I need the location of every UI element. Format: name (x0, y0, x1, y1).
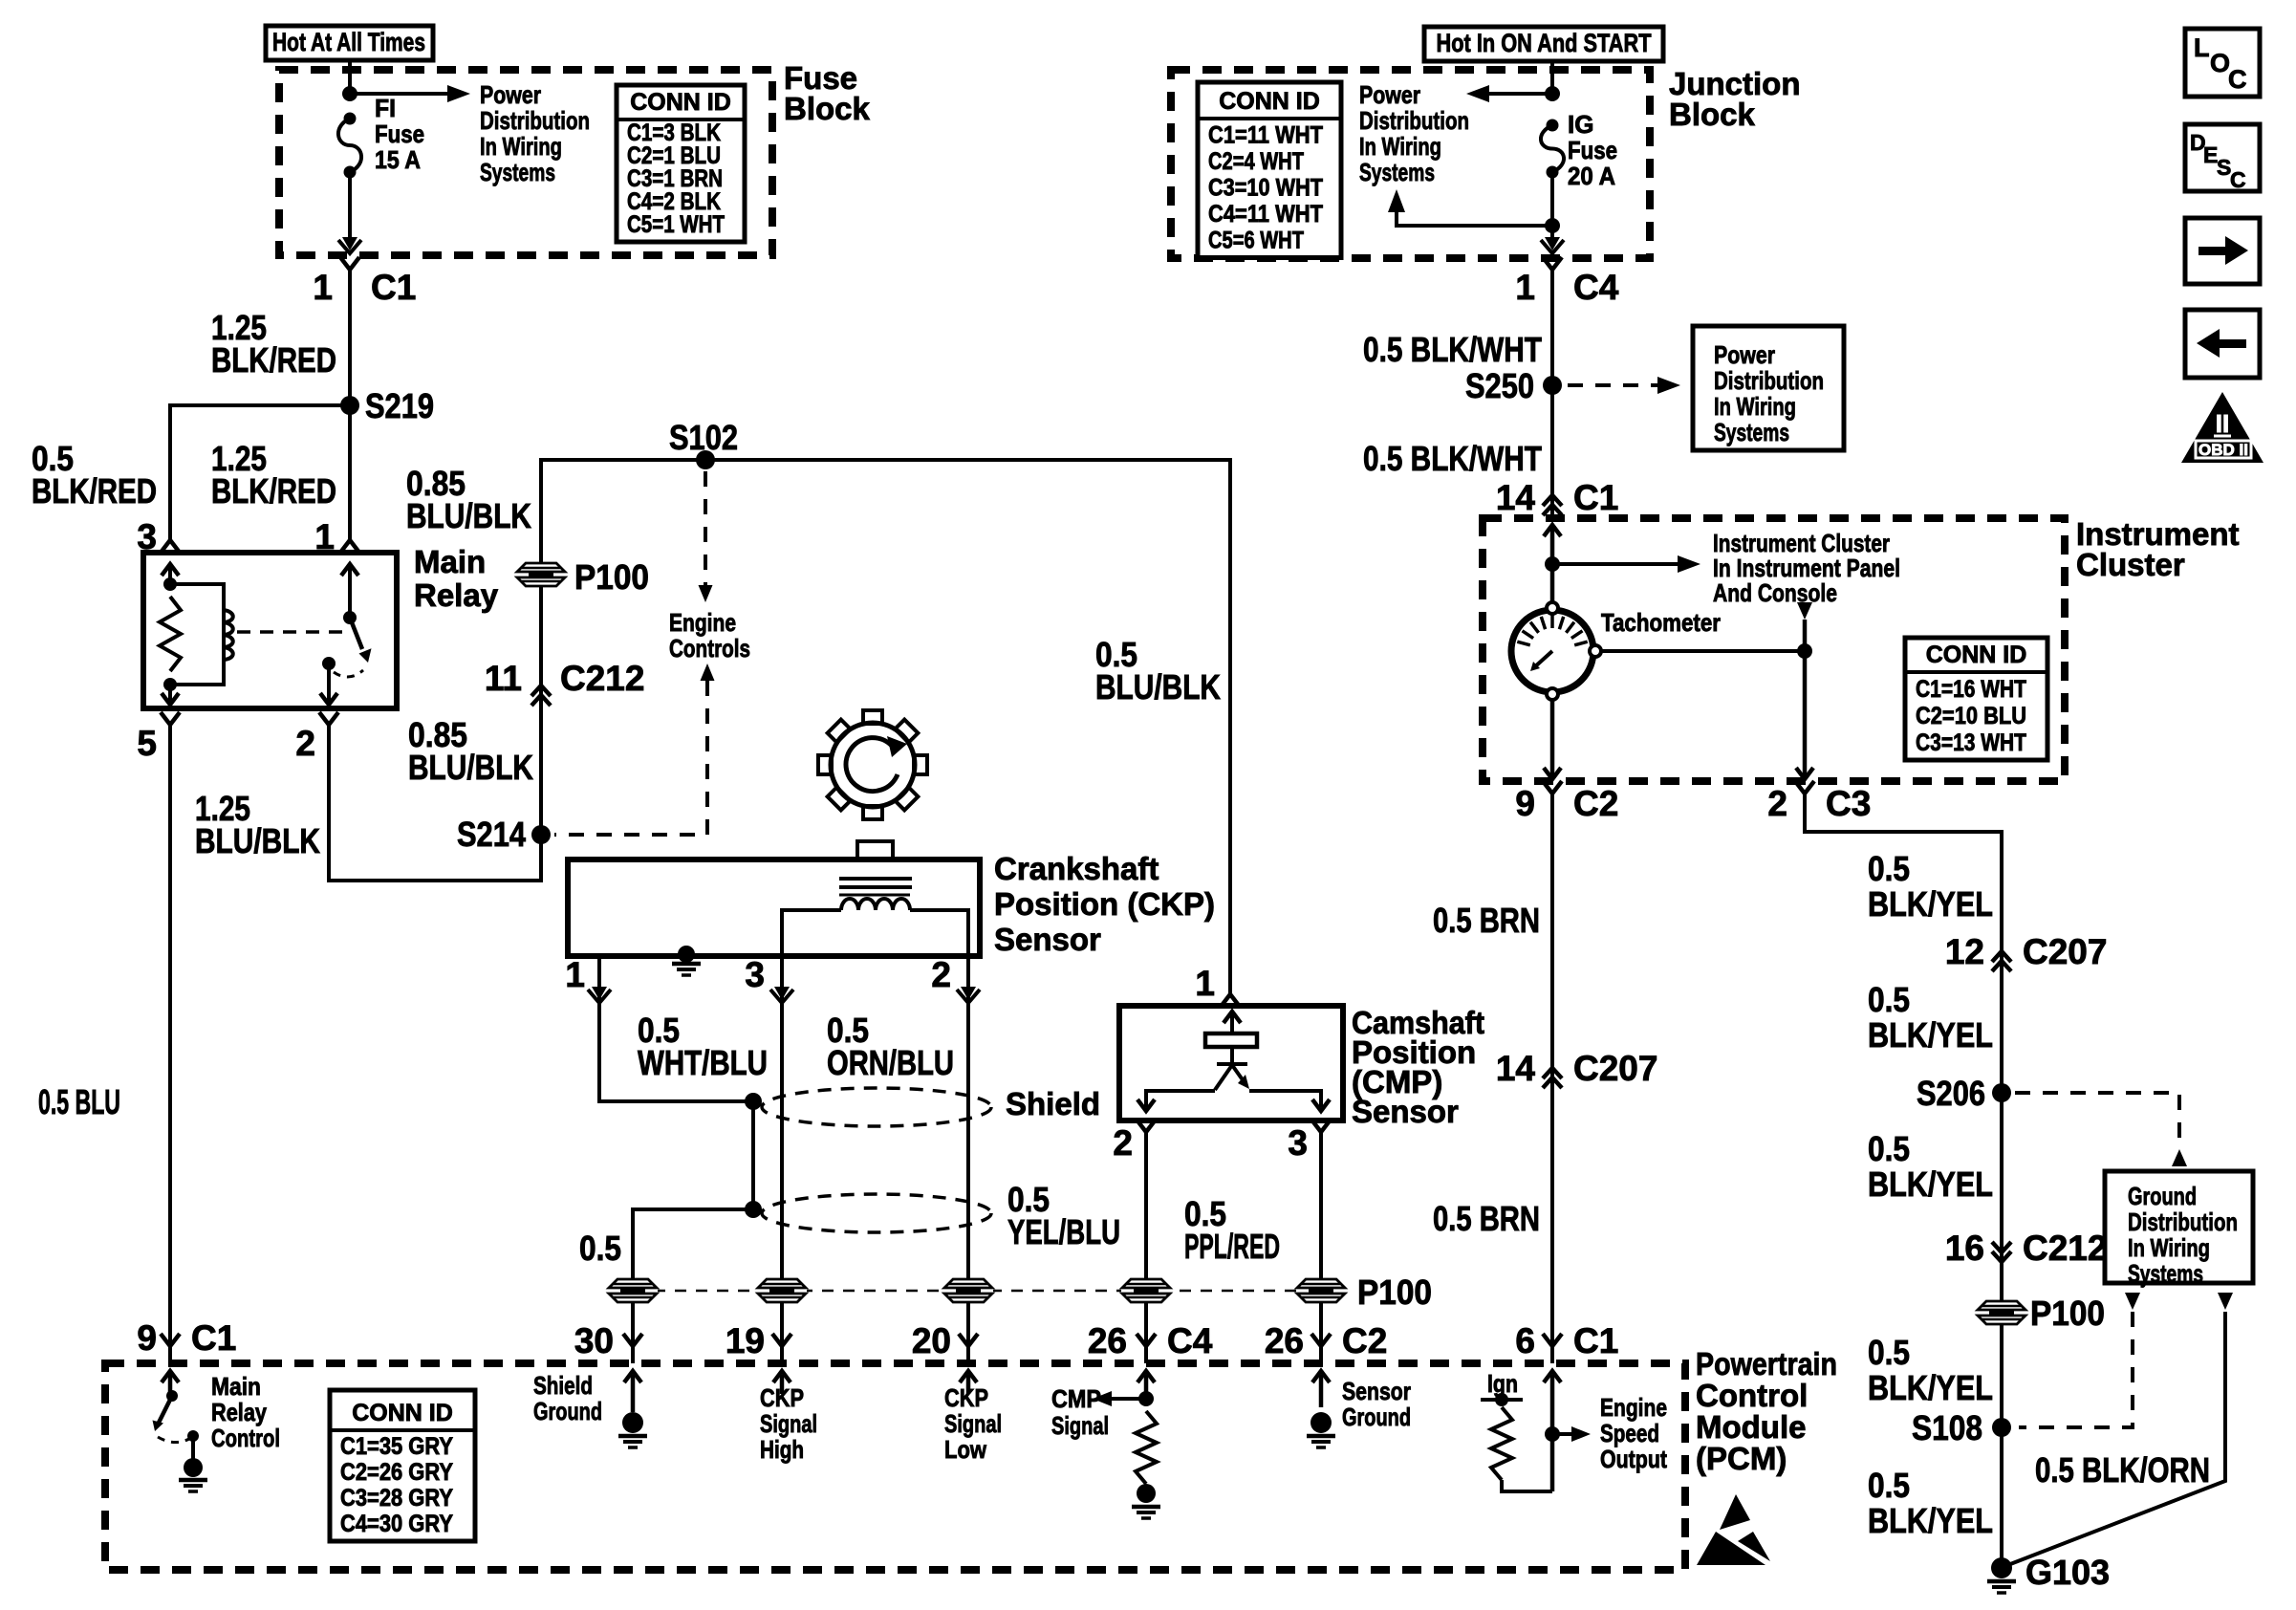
header box: Hot In ON And START (1424, 27, 1663, 61)
svg-text:BLK/RED: BLK/RED (211, 340, 336, 380)
svg-text:BLU/BLK: BLU/BLK (408, 748, 533, 787)
dashed reference: S206 to ground distribution (2015, 1093, 2179, 1147)
fuse block CONN ID table (617, 85, 745, 242)
svg-text:Relay: Relay (414, 577, 499, 613)
wire: 2 C3 over and down to G103 (1805, 808, 2002, 1568)
svg-text:Shield: Shield (1006, 1086, 1100, 1121)
connector 2 C3 below cluster (1795, 781, 1814, 794)
dashed reference: S250 to power distribution box (1568, 383, 1663, 387)
wire: ground distribution to G103 (0.5 BLK/ORN) (2218, 1293, 2233, 1310)
PCM internal: main relay control driver (168, 1373, 173, 1394)
svg-text:BLK/YEL: BLK/YEL (1868, 1368, 1993, 1407)
svg-text:14: 14 (1496, 478, 1536, 517)
wire: console arrow to 2 C3 (1803, 620, 1808, 777)
svg-text:In Wiring: In Wiring (2128, 1233, 2210, 1262)
svg-text:Block: Block (1669, 97, 1756, 132)
svg-text:C: C (2228, 65, 2247, 94)
svg-text:Ground: Ground (2128, 1182, 2197, 1210)
svg-text:3: 3 (1288, 1123, 1308, 1163)
svg-text:C4=30 GRY: C4=30 GRY (340, 1511, 453, 1537)
P100 grommet dashed bulkhead line (633, 1290, 1321, 1293)
exit arrow at junction block boundary (1545, 237, 1560, 250)
shield drain wire (751, 1101, 755, 1209)
svg-text:C3=28 GRY: C3=28 GRY (340, 1485, 453, 1512)
svg-text:CONN ID: CONN ID (1219, 88, 1320, 115)
wire: 9 C2 to PCM 6 C1 (0.5 BRN) (1550, 808, 1554, 1346)
grommet P100 at shield wire (608, 1278, 658, 1303)
svg-text:C: C (2230, 167, 2246, 192)
wire: CKP pin 2 to PCM 20 (0.5 ORN/BLU) (966, 957, 970, 1346)
node: splice to power distribution (junction block) (1545, 86, 1560, 101)
svg-text:WHT/BLU: WHT/BLU (638, 1043, 768, 1082)
svg-text:C1: C1 (1573, 1321, 1618, 1360)
svg-text:Power: Power (1714, 340, 1775, 369)
connector 14 C207 (1543, 1068, 1562, 1078)
svg-text:0.5 BLK/WHT: 0.5 BLK/WHT (1363, 439, 1542, 478)
svg-text:C1: C1 (371, 268, 416, 307)
svg-text:L: L (2194, 33, 2210, 62)
svg-text:C4: C4 (1573, 268, 1619, 307)
svg-text:Crankshaft: Crankshaft (994, 851, 1159, 886)
splice S206 (1992, 1083, 2011, 1102)
svg-text:In Wiring: In Wiring (1714, 392, 1796, 421)
svg-text:Distribution: Distribution (2128, 1207, 2238, 1236)
wire: C1 to S219 (348, 270, 352, 405)
svg-text:S206: S206 (1917, 1074, 1985, 1113)
tach signal node (1797, 643, 1812, 659)
svg-text:2: 2 (1767, 784, 1787, 823)
svg-text:C4=11 WHT: C4=11 WHT (1208, 201, 1323, 228)
svg-text:0.5: 0.5 (1868, 849, 1910, 888)
connector 9 C2 below cluster (1543, 781, 1562, 794)
svg-text:0.5 BRN: 0.5 BRN (1433, 1199, 1540, 1238)
ground G103 (1991, 1557, 2012, 1578)
wire: tachometer right terminal to node (1601, 649, 1805, 653)
relay switch contact (322, 657, 336, 670)
svg-text:30: 30 (574, 1321, 614, 1360)
svg-text:1: 1 (565, 955, 585, 994)
wire: CMP pin 3 to PCM 26 C2 (1319, 1132, 1323, 1346)
wire: relay pin 2 up to S102 and over to CMP pin 1 (329, 460, 1230, 994)
connector 14 C1 (1543, 495, 1562, 506)
svg-text:BLK/YEL: BLK/YEL (1868, 1015, 1993, 1055)
shield dashed ellipse lower (762, 1194, 991, 1232)
svg-text:CONN ID: CONN ID (352, 1400, 453, 1426)
svg-text:C3=13 WHT: C3=13 WHT (1916, 729, 2026, 756)
CKP sensor stem (857, 841, 893, 859)
svg-text:14: 14 (1496, 1049, 1536, 1088)
svg-text:C1: C1 (191, 1318, 236, 1358)
svg-text:26: 26 (1088, 1321, 1127, 1360)
relay internal node lower (163, 678, 177, 691)
svg-text:0.5 BLU: 0.5 BLU (38, 1082, 120, 1121)
svg-text:Low: Low (944, 1435, 987, 1464)
branch with up arrow (junction block) (1397, 203, 1552, 226)
svg-text:S219: S219 (365, 386, 434, 425)
connector 1 C1 below fuse block (340, 257, 359, 270)
svg-text:2: 2 (931, 955, 951, 994)
splice S108 (1992, 1418, 2011, 1437)
svg-text:And Console: And Console (1713, 578, 1837, 607)
svg-text:BLU/BLK: BLU/BLK (406, 496, 531, 535)
PCM internal: CKP signal low input arrow (966, 1375, 971, 1394)
exit arrow at fuse block boundary (342, 237, 357, 250)
svg-text:0.5: 0.5 (579, 1229, 621, 1268)
svg-text:Sensor: Sensor (994, 922, 1101, 957)
svg-text:Main: Main (414, 544, 486, 579)
svg-text:BLK/YEL: BLK/YEL (1868, 1164, 1993, 1204)
svg-text:Ground: Ground (1342, 1403, 1411, 1431)
svg-text:P100: P100 (1357, 1273, 1432, 1312)
svg-text:Systems: Systems (2128, 1259, 2203, 1288)
svg-text:FI: FI (375, 94, 396, 122)
svg-text:CONN ID: CONN ID (1926, 642, 2027, 668)
svg-text:Power: Power (1359, 80, 1420, 109)
svg-text:1: 1 (1515, 268, 1535, 307)
relay switch pivot (343, 611, 357, 624)
relay resistor (160, 597, 181, 671)
svg-text:CONN ID: CONN ID (630, 89, 731, 116)
relay pin2 internal lead with down arrow (327, 664, 331, 703)
svg-text:9: 9 (137, 1318, 157, 1358)
svg-text:Hot At All Times: Hot At All Times (272, 28, 425, 56)
svg-text:Signal: Signal (1051, 1411, 1109, 1440)
svg-text:C5=6 WHT: C5=6 WHT (1208, 228, 1304, 254)
fuse IG 20A symbol (1547, 120, 1559, 132)
wire: CKP pin 1 to shield (599, 957, 753, 1101)
splice S219 (340, 396, 359, 415)
svg-text:15 A: 15 A (375, 145, 421, 174)
svg-text:O: O (2210, 49, 2230, 77)
dashed reference: S108 to ground distribution (2125, 1293, 2140, 1310)
svg-text:In Wiring: In Wiring (480, 132, 562, 161)
icon box: DESC (2185, 124, 2260, 191)
svg-text:C3: C3 (1826, 784, 1871, 823)
relay switch arm (350, 618, 362, 649)
wire from Hot In ON And START into junction block (1550, 61, 1554, 91)
relay coil branch wire (170, 584, 224, 685)
svg-text:CMP: CMP (1051, 1384, 1101, 1413)
svg-text:BLU/BLK: BLU/BLK (195, 821, 320, 860)
svg-text:Engine: Engine (1600, 1393, 1667, 1422)
svg-text:C4: C4 (1167, 1321, 1213, 1360)
svg-text:20: 20 (912, 1321, 951, 1360)
relay switch dashed travel arc (334, 670, 363, 677)
svg-text:2: 2 (1113, 1123, 1133, 1163)
wire: CMP pin 2 to PCM 26 C4 (0.5 YEL... PPL/RED) (1144, 1132, 1148, 1346)
relay pin 1 connector (340, 540, 359, 553)
svg-text:2: 2 (295, 724, 315, 763)
CKP case ground (678, 946, 695, 963)
CKP sensor box (568, 859, 980, 956)
svg-text:S102: S102 (669, 418, 738, 457)
node: branch to power distribution return (1545, 218, 1560, 233)
svg-text:High: High (760, 1435, 804, 1464)
icon box: arrow right (2185, 218, 2260, 284)
svg-text:C1=11 WHT: C1=11 WHT (1208, 122, 1323, 149)
CMP pin 3 connector (1311, 1120, 1331, 1132)
svg-text:Main: Main (211, 1372, 261, 1401)
svg-text:S250: S250 (1465, 366, 1534, 405)
svg-text:Cluster: Cluster (2076, 547, 2185, 582)
wire: S219 to relay pin 1 (348, 405, 352, 540)
PCM internal: CMP pull resistor to ground (1136, 1411, 1157, 1484)
relay coil winding (224, 610, 233, 660)
grommet P100 at sensor ground (1296, 1278, 1346, 1303)
CKP pickup coil (841, 899, 910, 910)
relay pin 2 connector (319, 712, 338, 725)
splice S102 (696, 450, 715, 469)
cluster CONN ID table (1905, 638, 2047, 760)
svg-text:Distribution: Distribution (1359, 106, 1469, 135)
svg-text:CKP: CKP (760, 1383, 804, 1412)
svg-text:20 A: 20 A (1568, 162, 1615, 190)
svg-text:CKP: CKP (944, 1383, 988, 1412)
svg-text:0.5 BRN: 0.5 BRN (1433, 901, 1540, 940)
connector 1 C4 below junction block (1543, 257, 1562, 270)
svg-text:Hot In ON And START: Hot In ON And START (1437, 29, 1652, 57)
CMP sensor box (1119, 1006, 1343, 1120)
CMP internal: pin1 lead with up arrow (1224, 1012, 1241, 1023)
svg-text:C1: C1 (1573, 478, 1618, 517)
wire: 1 C4 down to instrument cluster (1550, 270, 1554, 521)
svg-text:Systems: Systems (480, 158, 555, 186)
dashed reference: S102 to Engine Controls (704, 471, 707, 585)
svg-text:BLU/BLK: BLU/BLK (1095, 667, 1221, 707)
wire from Hot At All Times into fuse block (348, 60, 352, 91)
svg-text:C3=10 WHT: C3=10 WHT (1208, 175, 1323, 202)
relay pin1 internal lead with up arrow (348, 564, 352, 618)
PCM internal: engine speed output node (1550, 1375, 1555, 1491)
PCM internal: shield ground termination (631, 1375, 636, 1412)
svg-text:Systems: Systems (1714, 418, 1789, 446)
svg-text:(PCM): (PCM) (1696, 1441, 1787, 1476)
PCM internal: CKP signal high input arrow (780, 1375, 785, 1394)
CKP reluctor gear symbol (818, 710, 927, 819)
grommet P100 at CMP signal (1121, 1278, 1171, 1303)
fuse block dashed outline (279, 70, 772, 255)
pass-through grommet P100 (engine harness) (516, 562, 566, 587)
CKP internal leads (782, 910, 841, 955)
svg-text:C1=35 GRY: C1=35 GRY (340, 1433, 453, 1460)
svg-text:0.5: 0.5 (1868, 1129, 1910, 1168)
svg-text:Control: Control (1696, 1378, 1808, 1413)
svg-text:II: II (2216, 409, 2229, 438)
svg-text:Engine: Engine (669, 608, 736, 637)
svg-text:C207: C207 (2023, 932, 2107, 971)
svg-text:IG: IG (1568, 110, 1593, 139)
svg-text:C2: C2 (1573, 784, 1618, 823)
svg-text:P100: P100 (2030, 1294, 2105, 1333)
CMP internal stem and crossbar (1230, 1047, 1234, 1064)
svg-text:BLK/RED: BLK/RED (32, 471, 157, 511)
header box: Hot At All Times (266, 26, 433, 60)
svg-text:C212: C212 (560, 659, 644, 698)
svg-text:Speed: Speed (1600, 1419, 1659, 1447)
svg-text:19: 19 (726, 1321, 765, 1360)
splice S214 (531, 825, 551, 844)
CKP core laminations (839, 877, 912, 881)
relay pin3 internal lead with up arrow (168, 564, 172, 584)
arrow to Instrument Cluster In Instrument Panel And Console (1552, 562, 1683, 566)
svg-text:26: 26 (1265, 1321, 1304, 1360)
ESD sensitive device symbol (1720, 1494, 1750, 1530)
svg-text:Fuse: Fuse (1568, 136, 1617, 164)
grommet P100 right (1977, 1300, 2026, 1325)
arrow from And Console down to tach signal wire (1797, 602, 1812, 620)
dashed reference: Engine Controls to S214 (701, 664, 715, 681)
relay pin5 internal lead with down arrow (168, 685, 172, 703)
reference box: Ground Distribution In Wiring Systems (2105, 1171, 2253, 1283)
icon: OBD II triangle (2181, 392, 2264, 463)
relay coil-contact dashed link (237, 630, 342, 634)
svg-text:Shield: Shield (533, 1371, 593, 1400)
svg-text:5: 5 (137, 724, 157, 763)
svg-text:1: 1 (313, 268, 333, 307)
wire: tachometer output to 9 C2 (1550, 700, 1555, 777)
node: splice to power distribution (fuse block) (342, 86, 357, 101)
svg-text:C2=10 BLU: C2=10 BLU (1916, 703, 2026, 729)
svg-text:0.5: 0.5 (1868, 980, 1910, 1019)
main relay box (143, 553, 397, 708)
svg-text:0.5 BLK/WHT: 0.5 BLK/WHT (1363, 330, 1542, 369)
svg-text:Relay: Relay (211, 1398, 267, 1426)
svg-text:Distribution: Distribution (1714, 366, 1824, 395)
svg-text:OBD II: OBD II (2199, 441, 2248, 459)
svg-text:Ground: Ground (533, 1397, 602, 1425)
svg-text:Powertrain: Powertrain (1696, 1346, 1837, 1382)
svg-text:16: 16 (1945, 1229, 1984, 1268)
svg-text:BLK/YEL: BLK/YEL (1868, 884, 1993, 924)
grommet P100 at CKP signal high (757, 1278, 807, 1303)
PCM internal: CMP signal input (1144, 1375, 1149, 1399)
svg-text:C212: C212 (2023, 1229, 2107, 1268)
connector 11 C212 (531, 685, 551, 696)
wire: shield to PCM 30 (633, 1209, 753, 1346)
shield node lower (745, 1201, 762, 1218)
svg-text:C207: C207 (1573, 1049, 1657, 1088)
relay pin 5 connector (161, 712, 180, 725)
CMP internal vane arms (1215, 1065, 1232, 1090)
svg-text:Distribution: Distribution (480, 106, 590, 135)
svg-text:Signal: Signal (944, 1409, 1002, 1438)
svg-text:0.5 BLK/ORN: 0.5 BLK/ORN (2035, 1450, 2210, 1490)
svg-text:9: 9 (1515, 784, 1535, 823)
svg-text:ORN/BLU: ORN/BLU (827, 1043, 954, 1082)
instrument cluster dashed outline (1483, 518, 2065, 781)
svg-text:S108: S108 (1912, 1408, 1982, 1447)
junction block dashed outline (1171, 70, 1650, 258)
wire: fuse to junction exit (1550, 172, 1554, 241)
PCM connector chevrons (623, 1334, 642, 1346)
svg-text:C5=1 WHT: C5=1 WHT (627, 211, 725, 238)
PCM internal: sensor ground termination (1319, 1375, 1324, 1407)
CMP pin 2 connector (1137, 1120, 1156, 1132)
svg-text:Signal: Signal (760, 1409, 817, 1438)
arrow to Power Distribution (junction block) (1484, 92, 1552, 96)
PCM internal: Ign feed bar (1481, 1398, 1523, 1402)
svg-text:Tachometer: Tachometer (1601, 608, 1721, 637)
arrow to Power Distribution In Wiring Systems (350, 92, 453, 96)
icon box: arrow left (2185, 310, 2260, 378)
connector 12 C207 (1992, 951, 2011, 962)
svg-text:Block: Block (784, 91, 871, 126)
splice S250 (1543, 376, 1562, 395)
connector 16 C212 (1992, 1251, 2011, 1262)
svg-text:S214: S214 (457, 815, 526, 854)
svg-text:6: 6 (1515, 1321, 1535, 1360)
fuse FI 15A symbol (344, 113, 357, 125)
svg-text:C1=16 WHT: C1=16 WHT (1916, 676, 2026, 703)
svg-text:Fuse: Fuse (375, 120, 424, 148)
wire: relay pin 5 to PCM 9 C1 (0.5 BLU) (168, 725, 172, 1346)
svg-text:BLK/RED: BLK/RED (211, 471, 336, 511)
svg-text:Sensor: Sensor (1352, 1094, 1459, 1129)
svg-text:C2: C2 (1342, 1321, 1387, 1360)
svg-text:1: 1 (1195, 964, 1215, 1003)
svg-text:C2=26 GRY: C2=26 GRY (340, 1459, 453, 1486)
shield node upper (745, 1093, 762, 1110)
svg-text:Power: Power (480, 80, 541, 109)
grommet P100 at CKP signal low (943, 1278, 993, 1303)
svg-text:Controls: Controls (669, 634, 750, 663)
wire: S219 branch to relay pin 3 (170, 405, 350, 540)
svg-text:Systems: Systems (1359, 158, 1435, 186)
PCM CONN ID table (330, 1390, 475, 1541)
svg-text:PPL/RED: PPL/RED (1184, 1227, 1280, 1266)
svg-text:Module: Module (1696, 1409, 1806, 1445)
svg-text:Position (CKP): Position (CKP) (994, 886, 1215, 922)
svg-text:3: 3 (745, 955, 765, 994)
CMP vane slot (1205, 1033, 1257, 1047)
svg-text:G103: G103 (2025, 1553, 2110, 1592)
cluster node to panel lamps (1545, 556, 1560, 572)
relay internal node upper (163, 577, 177, 591)
svg-text:BLK/YEL: BLK/YEL (1868, 1501, 1993, 1540)
svg-text:YEL/BLU: YEL/BLU (1007, 1212, 1120, 1251)
svg-text:In Wiring: In Wiring (1359, 132, 1441, 161)
wire: CKP pin 3 to PCM 19 (0.5 WHT/BLU) (780, 957, 784, 1346)
svg-text:0.5: 0.5 (1868, 1333, 1910, 1372)
relay pin 3 connector (161, 540, 180, 553)
icon box: LOC (2185, 29, 2260, 97)
svg-text:Sensor: Sensor (1342, 1377, 1411, 1405)
svg-text:Control: Control (211, 1424, 280, 1452)
svg-text:12: 12 (1945, 932, 1984, 971)
wire: fuse to fuse block exit (348, 172, 352, 241)
shield dashed ellipse upper (762, 1088, 991, 1126)
junction block CONN ID table (1198, 82, 1341, 258)
PCM dashed outline (105, 1363, 1685, 1570)
svg-text:0.5: 0.5 (1868, 1466, 1910, 1505)
svg-text:P100: P100 (574, 557, 649, 597)
reference box: Power Distribution In Wiring Systems (1693, 326, 1844, 450)
svg-text:C2=4 WHT: C2=4 WHT (1208, 148, 1304, 175)
tachometer gauge (1511, 610, 1593, 692)
svg-text:Output: Output (1600, 1445, 1667, 1473)
svg-text:11: 11 (485, 659, 522, 698)
cluster internal feed with up arrow (1550, 525, 1555, 608)
PCM internal: engine speed pull-up resistor (1491, 1407, 1512, 1480)
